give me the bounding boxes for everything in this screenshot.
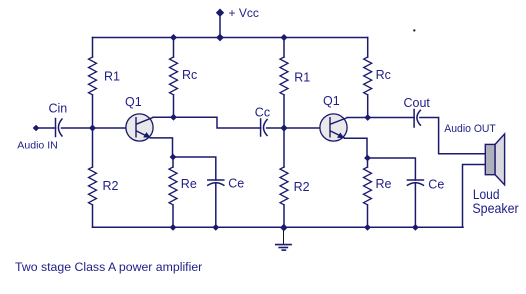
wire emitter node to Ce1 bbox=[173, 157, 216, 180]
node rail-Rc1 bbox=[170, 34, 177, 41]
node collector stage1 bbox=[170, 114, 177, 121]
svg-text:Ce: Ce bbox=[428, 177, 444, 191]
svg-text:R2: R2 bbox=[294, 180, 310, 194]
wire Cin to base node stage1 bbox=[62, 127, 93, 129]
svg-text:Audio OUT: Audio OUT bbox=[444, 123, 496, 135]
wire collector Q2 to node bbox=[347, 117, 368, 119]
resistor Re (stage 1) bbox=[169, 167, 177, 205]
node rail-R1b bbox=[281, 34, 288, 41]
wire collector Q1 to node bbox=[153, 116, 174, 118]
resistor R1 (stage 2) bbox=[280, 57, 288, 95]
node rail-Re2 bbox=[364, 224, 371, 231]
node base stage2 bbox=[280, 124, 287, 131]
capacitor Cc bbox=[260, 119, 262, 136]
capacitor Ce (stage 2) bbox=[407, 179, 423, 181]
svg-text:Re: Re bbox=[376, 177, 392, 191]
wire Rc stage1 top lead bbox=[173, 38, 175, 58]
wire R1 stage2 top lead bbox=[283, 38, 285, 58]
svg-text:R2: R2 bbox=[103, 179, 119, 193]
capacitor Cin bbox=[55, 119, 57, 137]
wire Cout to output corner bbox=[420, 118, 485, 154]
wire Re1 bottom lead bbox=[172, 205, 174, 227]
wire collector node2 to Cout bbox=[368, 117, 414, 119]
svg-text:Rc: Rc bbox=[376, 68, 391, 82]
wire base node to Q1 base bbox=[93, 127, 136, 129]
svg-text:Q1: Q1 bbox=[125, 95, 142, 109]
svg-text:Cin: Cin bbox=[49, 102, 68, 116]
loud speaker bbox=[485, 134, 504, 185]
svg-text:Re: Re bbox=[181, 177, 197, 191]
resistor Re (stage 2) bbox=[364, 167, 372, 205]
svg-text:Audio IN: Audio IN bbox=[17, 140, 58, 152]
wire Rc stage2 top lead bbox=[367, 38, 369, 58]
resistor R1 (stage 1) bbox=[89, 57, 97, 95]
wire Vcc stub bbox=[219, 13, 221, 38]
node rail-Vcc bbox=[216, 34, 224, 42]
wire top rail bbox=[93, 37, 368, 39]
node collector stage2 bbox=[364, 114, 371, 121]
node rail-Re1 bbox=[170, 224, 177, 231]
svg-text:Speaker: Speaker bbox=[472, 200, 519, 216]
wire Cc to base node stage2 bbox=[267, 127, 330, 129]
transistor Q1 (stage 2) bbox=[320, 114, 347, 141]
wire R1 bottom lead to base node bbox=[92, 95, 94, 167]
node emitter stage1 bbox=[170, 154, 177, 161]
capacitor Ce (stage 1) bbox=[208, 179, 224, 181]
svg-text:Cout: Cout bbox=[404, 96, 431, 110]
wire R1 stage1 top lead bbox=[92, 38, 94, 58]
wire emitter node2 to Ce2 bbox=[368, 158, 416, 180]
svg-text:Two stage Class A power amplif: Two stage Class A power amplifier bbox=[15, 260, 202, 274]
wire emitter Q2 to node bbox=[345, 138, 368, 158]
resistor Rc (stage 1) bbox=[170, 57, 178, 95]
wire Rc bottom lead to collector node bbox=[173, 95, 175, 117]
wire R2 bottom lead bbox=[92, 205, 94, 227]
node rail-Ce1 bbox=[212, 224, 219, 231]
svg-text:Ce: Ce bbox=[228, 177, 244, 191]
svg-text:R1: R1 bbox=[294, 71, 310, 85]
node rail-Ce2 bbox=[412, 224, 419, 231]
resistor Rc (stage 2) bbox=[364, 57, 372, 95]
svg-text:R1: R1 bbox=[104, 70, 120, 84]
wire bottom rail bbox=[93, 226, 464, 228]
resistor R2 (stage 2) bbox=[280, 167, 288, 205]
stray speck bbox=[413, 29, 415, 31]
capacitor Cout bbox=[413, 110, 415, 128]
ground bbox=[276, 228, 291, 250]
svg-text:Q1: Q1 bbox=[323, 94, 340, 108]
node emitter stage2 bbox=[364, 155, 371, 162]
wire Re2 top lead bbox=[367, 158, 369, 167]
wire speaker return bbox=[463, 165, 486, 228]
resistor R2 (stage 1) bbox=[89, 167, 97, 205]
wire Rc stage2 bottom lead bbox=[367, 95, 369, 118]
svg-text:+ Vcc: + Vcc bbox=[229, 6, 259, 20]
wire R2 stage2 bottom lead bbox=[283, 205, 285, 227]
wire Re1 top lead bbox=[172, 157, 174, 167]
wire emitter Q1 stage1 to node bbox=[151, 138, 173, 157]
svg-text:Rc: Rc bbox=[182, 68, 197, 82]
wire input to Cin bbox=[36, 127, 56, 129]
node audio input terminal bbox=[33, 125, 40, 132]
node rail-ground bbox=[280, 224, 288, 232]
wire collector node to Cc (step) bbox=[174, 117, 261, 128]
wire R1 stage2 bottom lead bbox=[283, 95, 285, 167]
svg-text:Cc: Cc bbox=[255, 106, 270, 120]
wire Re2 bottom lead bbox=[367, 205, 369, 227]
node base divider stage1 bbox=[89, 125, 96, 132]
transistor Q1 (stage 1) bbox=[126, 114, 153, 141]
node Vcc terminal bbox=[216, 9, 224, 17]
